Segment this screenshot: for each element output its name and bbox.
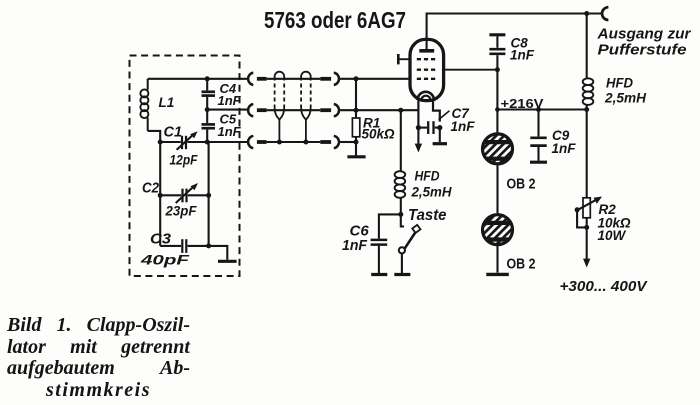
variable capacitor C2	[160, 183, 208, 203]
junction cable 1 shield to ground line	[277, 140, 282, 145]
svg-text:1nF: 1nF	[510, 48, 535, 63]
svg-text:50kΩ: 50kΩ	[362, 127, 396, 142]
label +216V	[501, 97, 545, 111]
heater lead left	[417, 100, 419, 128]
svg-text:1nF: 1nF	[451, 119, 476, 134]
cathode / heater arcs	[418, 92, 434, 101]
svg-text:10W: 10W	[598, 228, 627, 243]
wire top line to tube grid	[340, 78, 410, 80]
wire screen node down to +216V rail and OB2	[496, 70, 498, 133]
label C5 1nF	[218, 111, 242, 139]
wire OB2 to chassis	[496, 246, 498, 273]
caption line 4	[46, 379, 151, 402]
voltage regulator tube OB2 upper	[483, 134, 513, 164]
wire L1 bottom to C1 left node	[148, 131, 161, 142]
wire top link line out of box	[207, 78, 247, 80]
wire rail node down to R2	[586, 110, 588, 198]
caption line 2	[7, 336, 190, 359]
chassis bar below key	[394, 273, 410, 276]
wire L1 top to C4 node	[148, 78, 208, 80]
svg-text:Taste: Taste	[408, 207, 447, 224]
label Ausgang zur Pufferstufe	[596, 26, 691, 59]
capacitor C9	[530, 110, 546, 161]
chassis bar below C9	[530, 161, 547, 164]
caption line 3	[7, 357, 190, 380]
svg-text:12pF: 12pF	[170, 152, 198, 168]
label L1	[159, 95, 175, 110]
node C2 left	[158, 193, 163, 198]
label R1 50kOhm	[362, 116, 396, 142]
capacitor C7	[418, 121, 439, 134]
capacitor C6	[371, 240, 388, 273]
node middle line to choke tap	[398, 108, 403, 113]
label C4 1nF	[218, 81, 242, 108]
node R2 wiper	[575, 207, 580, 212]
svg-text:C1: C1	[164, 124, 183, 140]
chassis bar below C3	[218, 260, 237, 263]
label C1	[164, 124, 183, 140]
node top line / C4	[205, 76, 210, 81]
wire choke to rail node	[586, 104, 588, 110]
dashed enclosure box (tuning unit)	[130, 56, 240, 277]
output connector	[602, 7, 608, 20]
capacitor C5	[202, 110, 216, 142]
label 23pF	[165, 203, 197, 219]
label C6 1nF	[342, 223, 369, 255]
junction cable 2 shield to ground line	[303, 140, 308, 145]
vacuum tube U1 envelope	[410, 39, 444, 100]
svg-text:Ausgang zur: Ausgang zur	[596, 26, 691, 43]
node rail C9 tap	[536, 107, 541, 112]
right rail inside box	[208, 142, 210, 246]
caption Bild 1 line 1	[7, 314, 190, 337]
connector (female) mid right	[334, 104, 339, 116]
wire wiper tie to bottom	[577, 210, 587, 228]
heater lead right	[433, 100, 440, 122]
node C3 right	[206, 243, 211, 248]
connector pin (male) mid right	[320, 108, 331, 112]
node top line to output	[584, 11, 589, 16]
chassis bar below OB2	[486, 273, 509, 276]
label 40pF	[140, 252, 190, 268]
capacitor C4	[202, 79, 216, 110]
label C3	[150, 231, 171, 247]
label OB 2 upper	[507, 177, 536, 193]
chassis bar below C6	[371, 273, 387, 276]
grid 3 (dashed)	[417, 78, 436, 80]
node key / C6	[398, 212, 403, 217]
svg-text:2,5mH: 2,5mH	[411, 184, 453, 200]
wire middle line to cathode lead	[340, 109, 418, 111]
+216V rail	[497, 108, 586, 110]
variable capacitor C1	[160, 131, 207, 150]
label HFD 2,5mH left	[411, 168, 453, 200]
node R1 bottom on ground line	[354, 140, 359, 145]
wire choke to key node	[400, 197, 402, 214]
wire C3 to chassis	[209, 246, 228, 260]
label C8 1nF	[510, 36, 535, 63]
node R1 top on grid line	[354, 76, 359, 81]
node between C4 and C5	[205, 107, 210, 112]
anode lead and top line	[427, 14, 602, 50]
label Taste	[408, 207, 447, 224]
label 12pF	[170, 152, 198, 168]
node C1 right / C5 bottom	[205, 140, 210, 145]
connector pin (male) bottom right	[320, 140, 331, 144]
label HFD 2,5mH right	[604, 75, 647, 106]
svg-text:HFD: HFD	[415, 168, 440, 184]
node rail left	[495, 107, 500, 112]
choke HFD right	[583, 78, 594, 105]
node R2 bottom	[584, 225, 589, 230]
node C8 bottom / screen line	[495, 67, 500, 72]
label C2	[142, 181, 159, 197]
node R1 on middle line	[354, 108, 359, 113]
svg-text:40pF: 40pF	[140, 252, 190, 268]
node C1 left	[158, 140, 163, 145]
wire middle link	[267, 109, 321, 111]
svg-text:23pF: 23pF	[165, 203, 197, 219]
wire node down to left choke	[400, 110, 402, 171]
label R2 10kOhm 10W	[598, 202, 632, 243]
node C7 right	[437, 125, 442, 130]
label C9 1nF	[552, 128, 577, 156]
svg-text:5763 oder 6AG7: 5763 oder 6AG7	[264, 7, 406, 33]
label C7 1nF	[451, 106, 476, 134]
svg-text:Pufferstufe: Pufferstufe	[598, 42, 687, 59]
label OB 2 lower	[507, 257, 536, 273]
connector pin (male) mid left	[257, 108, 267, 112]
wire C7 to chassis	[439, 128, 441, 143]
wire node to C6	[379, 214, 401, 238]
wire between OB2 tubes	[496, 165, 498, 213]
wire key to chassis	[401, 253, 403, 273]
leader line C7	[439, 111, 450, 120]
svg-text:HFD: HFD	[606, 75, 633, 91]
chassis bar above C8	[489, 33, 505, 36]
svg-text:OB 2: OB 2	[507, 257, 536, 273]
node heater left / C7 left	[416, 125, 421, 130]
inductor L1	[140, 79, 148, 131]
connector pin (male) top right	[320, 77, 331, 81]
connector (female) top right	[334, 73, 339, 85]
node rail right	[584, 107, 589, 112]
tube type label 5763 oder 6AG7	[264, 7, 406, 33]
chassis bar below C7	[433, 142, 447, 145]
svg-text:2,5mH: 2,5mH	[604, 90, 647, 106]
svg-text:C2: C2	[142, 181, 159, 197]
voltage regulator tube OB2 lower	[483, 215, 513, 245]
shielded cable 1	[275, 72, 285, 142]
svg-text:1nF: 1nF	[552, 141, 577, 156]
svg-text:L1: L1	[159, 95, 175, 110]
wire bottom link line out of box	[209, 141, 247, 143]
capacitor C8	[489, 36, 505, 69]
label +300...400V	[560, 279, 648, 295]
svg-text:1nF: 1nF	[218, 124, 242, 139]
grid 2 (dashed) screen	[417, 69, 498, 71]
svg-text:C3: C3	[150, 231, 171, 247]
left rail inside box	[159, 142, 161, 246]
connector (female) bottom left	[248, 136, 253, 148]
arrow to heater supply	[415, 128, 422, 153]
connector (female) bottom right	[334, 136, 339, 148]
connector (female) top left	[248, 73, 253, 85]
anode plate bar	[419, 49, 434, 53]
chassis bar below R1	[347, 155, 365, 158]
capacitor C3	[160, 239, 208, 253]
connector pin (male) bottom left	[257, 140, 267, 144]
wire bottom link	[267, 141, 321, 143]
choke HFD left	[395, 171, 406, 198]
connector (female) mid left	[248, 104, 253, 116]
wire output node down to choke	[586, 14, 588, 79]
resistor R1	[352, 118, 359, 137]
potentiometer R2	[577, 197, 602, 218]
svg-text:OB 2: OB 2	[507, 177, 536, 193]
wire bottom line to R1	[340, 141, 356, 143]
shielded cable 2	[301, 72, 311, 142]
svg-text:+300... 400V: +300... 400V	[560, 279, 648, 295]
wire R1 column	[355, 79, 357, 118]
node C2 right	[206, 193, 211, 198]
wire middle link line out of box	[207, 109, 247, 112]
svg-text:1nF: 1nF	[342, 237, 368, 254]
connector pin (male) top left	[257, 77, 267, 81]
wire R2 down with arrow to +300..400V	[583, 218, 590, 268]
grid 1 (dashed) with cap terminal	[398, 54, 436, 64]
svg-text:1nF: 1nF	[218, 93, 242, 108]
wire top link middle	[267, 78, 321, 80]
wire R1 to chassis	[355, 137, 357, 156]
key switch Taste	[399, 214, 421, 253]
